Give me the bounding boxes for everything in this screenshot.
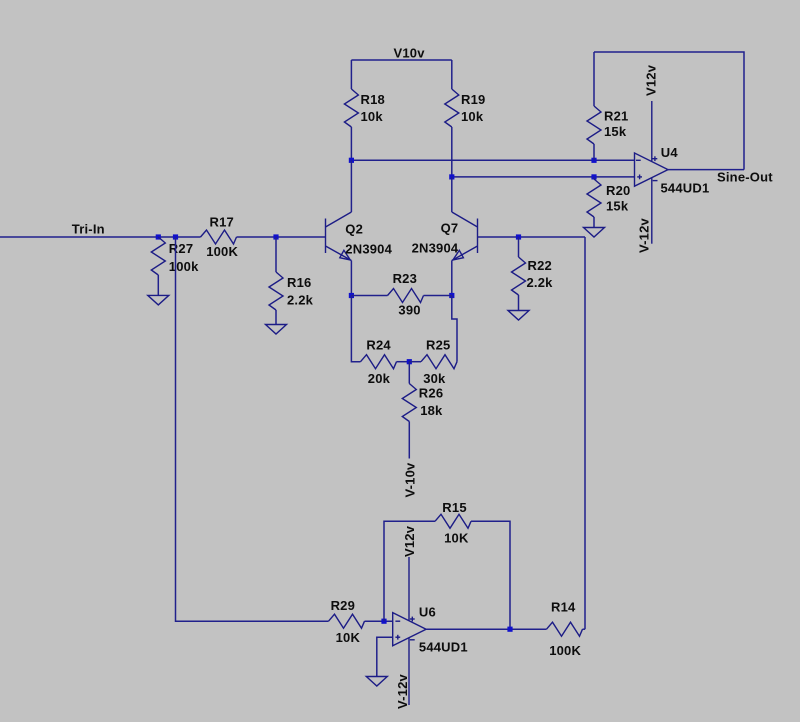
resistor R23 (388, 289, 424, 303)
svg-text:V-12v: V-12v (637, 217, 652, 253)
svg-text:R27: R27 (169, 241, 193, 256)
wire R18 top (350, 60, 352, 89)
wire R21 bottom (593, 144, 595, 160)
op-amp U4 (635, 101, 710, 244)
svg-text:2.2k: 2.2k (287, 293, 314, 308)
wire R17 to Q2 base (237, 236, 326, 238)
wire R20 top (593, 177, 595, 179)
svg-text:20k: 20k (368, 371, 391, 386)
resistor R17 (201, 230, 237, 244)
wire Tri-In input (0, 236, 201, 238)
resistor R15 (435, 514, 471, 528)
svg-text:R24: R24 (366, 338, 391, 353)
svg-text:15k: 15k (606, 199, 629, 214)
resistor R26 (402, 384, 416, 422)
wire U4 output (668, 169, 744, 171)
wire R19 bottom (451, 127, 453, 177)
svg-text:Q2: Q2 (345, 222, 363, 237)
resistor R18 (344, 89, 358, 127)
svg-text:R23: R23 (393, 271, 417, 286)
wire Q7 collector (451, 177, 453, 212)
wire U6 output (426, 628, 546, 630)
wire right loop down (584, 237, 586, 629)
resistor R29 (329, 614, 365, 628)
svg-text:544UD1: 544UD1 (661, 181, 710, 196)
ground below U6 plus input (366, 677, 387, 687)
wire R21 top feedback (594, 52, 744, 170)
wire rail2 collector Q7 to U4 plus (452, 176, 635, 178)
wire R16 bottom (275, 310, 277, 325)
svg-text:R14: R14 (551, 600, 576, 615)
resistor R27 (151, 237, 165, 275)
resistor R24 (361, 355, 397, 369)
wire R25 right jog to Q7 emitter (452, 296, 457, 362)
svg-text:30k: 30k (423, 371, 446, 386)
wire R23 right stub (424, 295, 452, 297)
svg-text:10k: 10k (461, 109, 484, 124)
ground below R16 (266, 325, 287, 335)
wire R24 right (397, 361, 410, 363)
svg-text:2N3904: 2N3904 (412, 241, 459, 256)
resistor R20 (587, 179, 601, 217)
svg-text:Tri-In: Tri-In (72, 222, 105, 237)
wire R27 bottom (157, 275, 159, 295)
svg-text:V10v: V10v (394, 46, 426, 61)
svg-text:V-12v: V-12v (395, 673, 410, 709)
svg-text:U4: U4 (661, 145, 679, 160)
svg-text:2.2k: 2.2k (527, 275, 554, 290)
wire emitter Q2 down to R24 (351, 296, 360, 362)
ground below R20 (584, 228, 605, 238)
svg-text:R22: R22 (528, 258, 552, 273)
svg-text:R26: R26 (419, 386, 443, 401)
svg-text:R17: R17 (210, 215, 234, 230)
svg-text:100K: 100K (206, 244, 238, 259)
wire R15 right vertical (471, 521, 510, 629)
svg-text:390: 390 (398, 303, 420, 318)
svg-text:R16: R16 (287, 275, 311, 290)
node junction R22 (516, 234, 521, 239)
svg-text:100k: 100k (169, 259, 199, 274)
svg-text:18k: 18k (420, 403, 443, 418)
wire R21 stub (593, 52, 595, 106)
svg-text:15k: 15k (604, 124, 627, 139)
resistor R25 (421, 355, 457, 369)
node junction R23 right (449, 293, 454, 298)
resistor R22 (512, 257, 526, 295)
svg-text:R29: R29 (331, 598, 355, 613)
node junction R27 (156, 234, 161, 239)
resistor R16 (269, 272, 283, 310)
svg-text:R19: R19 (461, 92, 485, 107)
node junction rail2 R20 (591, 174, 596, 179)
svg-text:V12v: V12v (644, 64, 659, 96)
wire rail1 collector Q2 to U4 minus (351, 159, 634, 161)
node junction R16 (273, 234, 278, 239)
svg-text:V-10v: V-10v (403, 462, 418, 498)
wire R20 bottom (593, 217, 595, 228)
node junction rail1 R21 (591, 158, 596, 163)
svg-text:R25: R25 (426, 338, 450, 353)
node junction R24 R25 R26 (407, 359, 412, 364)
transistor Q7 (412, 212, 478, 261)
node junction R23 left (349, 293, 354, 298)
svg-text:544UD1: 544UD1 (419, 639, 468, 654)
svg-text:R15: R15 (442, 500, 466, 515)
wire Q7 emitter (451, 261, 453, 296)
svg-text:U6: U6 (419, 604, 436, 619)
node junction rail1 Q2 (349, 158, 354, 163)
wire R23 left stub (351, 295, 387, 297)
wire R26 top (408, 362, 410, 384)
svg-text:100K: 100K (549, 643, 581, 658)
wire R19 top (451, 60, 453, 89)
svg-text:2N3904: 2N3904 (345, 242, 392, 257)
wire U6 plus input to ground (377, 637, 393, 676)
resistor R19 (445, 89, 459, 127)
node junction long feedback wire (173, 234, 178, 239)
svg-text:R18: R18 (361, 92, 385, 107)
op-amp U6 (393, 557, 468, 705)
wire R22 top (518, 237, 520, 257)
wire long left feedback (176, 237, 329, 621)
wire R16 top (275, 237, 277, 272)
transistor Q2 (326, 212, 393, 261)
wire R29 to U6 minus (365, 620, 393, 622)
wire Q7 base to R22 (478, 236, 586, 238)
wire V10v rail (351, 59, 451, 61)
wire R18 bottom (350, 127, 352, 160)
svg-text:Q7: Q7 (441, 221, 459, 236)
wire Q2 collector (350, 160, 352, 212)
svg-text:10K: 10K (336, 630, 361, 645)
wire R26 bottom (408, 422, 410, 459)
wire Q2 emitter (350, 261, 352, 296)
svg-text:10k: 10k (361, 109, 384, 124)
wire R22 bottom (518, 295, 520, 311)
svg-text:R21: R21 (604, 109, 628, 124)
svg-text:V12v: V12v (402, 525, 417, 557)
node junction U6 minus input (381, 619, 386, 624)
svg-text:Sine-Out: Sine-Out (717, 170, 773, 185)
node junction U6 output R15 (507, 627, 512, 632)
ground below R27 (148, 295, 169, 305)
wire R14 right (583, 628, 586, 630)
resistor R14 (547, 622, 583, 636)
node junction rail2 Q7 (449, 174, 454, 179)
svg-text:10K: 10K (444, 531, 469, 546)
wire R15 feedback left vertical (384, 521, 435, 621)
wire R25 left (409, 361, 421, 363)
svg-text:R20: R20 (606, 183, 630, 198)
ground below R22 (508, 311, 529, 321)
resistor R21 (587, 106, 601, 144)
